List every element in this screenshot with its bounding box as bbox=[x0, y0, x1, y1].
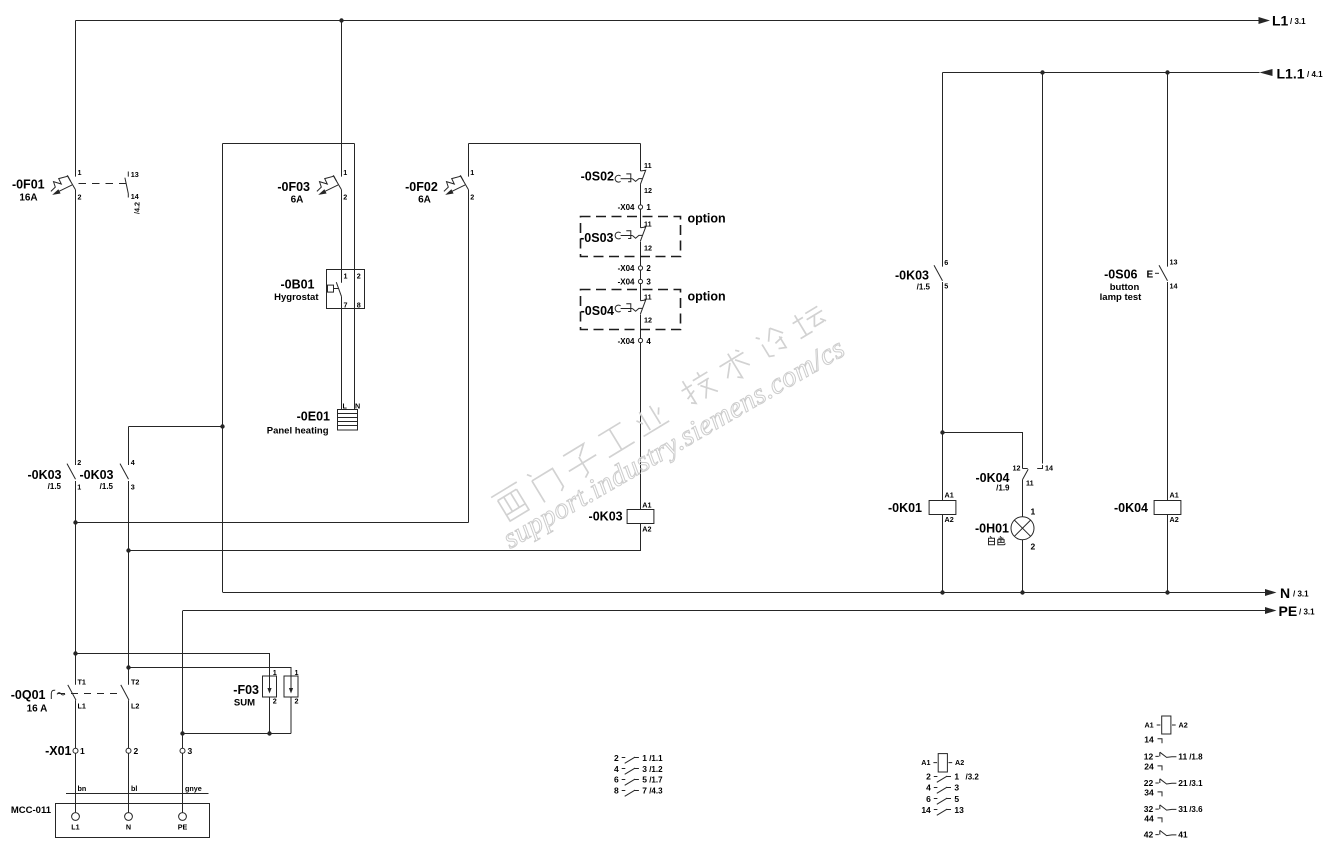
junction dot K03 A2 return bbox=[126, 548, 130, 552]
svg-text:12: 12 bbox=[1144, 752, 1154, 762]
heater -0E01 bbox=[338, 410, 358, 431]
wire lamp to N bbox=[1022, 540, 1024, 593]
contact mirror table -0K01 row 2-1 bbox=[926, 772, 979, 783]
svg-text:A2: A2 bbox=[1179, 721, 1188, 730]
svg-text:/ 3.1: / 3.1 bbox=[1299, 608, 1315, 617]
breaker -0F02 bbox=[444, 175, 469, 195]
junction dot L1.1 / lamp-14 branch bbox=[1040, 70, 1044, 74]
wire N rail bbox=[223, 592, 1265, 594]
svg-text:12: 12 bbox=[644, 244, 652, 253]
svg-text:-0F01: -0F01 bbox=[12, 178, 45, 192]
wire heater N line through B01 bbox=[354, 144, 356, 410]
terminal -X01:2 bbox=[126, 748, 131, 753]
svg-text:11: 11 bbox=[1026, 479, 1034, 488]
svg-text:5: 5 bbox=[954, 794, 959, 804]
svg-text:-0B01: -0B01 bbox=[280, 278, 314, 292]
svg-text:2: 2 bbox=[295, 697, 299, 706]
contact -0K03 4/3 bbox=[120, 464, 129, 480]
terminal -X01:1 bbox=[73, 748, 78, 753]
svg-text:-0H01: -0H01 bbox=[975, 522, 1009, 536]
aux contact -0F01 13/14 bbox=[125, 172, 128, 198]
svg-text:8: 8 bbox=[357, 301, 361, 310]
svg-text:-X01: -X01 bbox=[45, 744, 71, 758]
terminal -X04:1 bbox=[638, 205, 642, 209]
svg-text:L1: L1 bbox=[71, 823, 79, 832]
svg-text:/4.3: /4.3 bbox=[649, 786, 663, 795]
svg-text:L: L bbox=[343, 402, 348, 411]
svg-text:11: 11 bbox=[644, 220, 652, 229]
svg-text:-X04: -X04 bbox=[618, 337, 635, 346]
svg-text:/4.2: /4.2 bbox=[133, 202, 142, 214]
svg-text:21: 21 bbox=[1178, 778, 1188, 788]
wire pin 14 branch from L1.1 bbox=[1037, 73, 1042, 469]
svg-text:1: 1 bbox=[954, 772, 959, 782]
N rail arrow bbox=[1265, 589, 1277, 596]
wire SPD branch 1 horizontal bbox=[76, 654, 270, 677]
wire contact 11 to lamp bbox=[1022, 480, 1024, 517]
svg-text:16A: 16A bbox=[19, 193, 37, 204]
wire top horizontal right segment bbox=[469, 143, 641, 145]
wire -0F02 bottom return to L1 vertical bbox=[76, 522, 469, 524]
svg-text:7: 7 bbox=[344, 301, 348, 310]
sensor element -0B01 bbox=[328, 285, 334, 292]
breaker -0F03 bbox=[317, 175, 342, 195]
svg-text:/ 4.1: / 4.1 bbox=[1307, 70, 1323, 79]
contact mirror table -0K01 row 4-3 bbox=[926, 783, 959, 794]
surge arrester -F03 b bbox=[284, 676, 298, 697]
svg-text:-0S06: -0S06 bbox=[1104, 268, 1137, 282]
wire cable line above MCC bbox=[66, 793, 209, 795]
terminal -X04:2 bbox=[638, 266, 642, 270]
svg-text:option: option bbox=[688, 212, 726, 226]
svg-text:7: 7 bbox=[642, 785, 647, 795]
terminal -X01:3 bbox=[180, 748, 185, 753]
svg-text:A1: A1 bbox=[1170, 491, 1179, 500]
contact mirror table -0K01 row 6-5 bbox=[926, 794, 959, 805]
svg-text:A1: A1 bbox=[945, 491, 954, 500]
svg-text:6A: 6A bbox=[291, 195, 304, 206]
svg-text:1: 1 bbox=[470, 168, 474, 177]
svg-text:-0K01: -0K01 bbox=[888, 501, 922, 515]
position switch -0S03 11/12 bbox=[615, 227, 646, 241]
terminal MCC L1 bbox=[72, 813, 80, 821]
box -0B01 Hygrostat bbox=[327, 270, 365, 309]
box MCC-011 bbox=[56, 804, 210, 838]
svg-text:13: 13 bbox=[954, 805, 964, 815]
contact mirror table -0K03 row 8-7 bbox=[614, 785, 663, 796]
contact mirror table -0K01 coil bbox=[921, 754, 964, 772]
svg-text:-X04: -X04 bbox=[618, 278, 635, 287]
wire lamp branch horizontal bbox=[943, 433, 1023, 469]
terminal MCC N bbox=[125, 813, 133, 821]
contact mirror table -0K04 row 12-11 bbox=[1144, 752, 1203, 762]
svg-text:8: 8 bbox=[614, 785, 619, 795]
contact -0B01 1-7 blade bbox=[336, 282, 341, 296]
svg-text:L1.1: L1.1 bbox=[1277, 66, 1305, 82]
svg-text:/1.9: /1.9 bbox=[996, 484, 1010, 493]
svg-text:44: 44 bbox=[1144, 813, 1154, 823]
svg-text:5: 5 bbox=[944, 282, 948, 291]
junction dot SPD2 branch bbox=[126, 665, 130, 669]
svg-text:41: 41 bbox=[1178, 830, 1188, 840]
svg-text:-X04: -X04 bbox=[618, 264, 635, 273]
junction dot lamp/N bbox=[1020, 590, 1024, 594]
wire SPD bottoms to PE bbox=[183, 697, 292, 734]
svg-text:N: N bbox=[1280, 585, 1290, 601]
wire L1 top rail bbox=[76, 20, 1259, 22]
svg-text:/ 3.1: / 3.1 bbox=[1293, 590, 1309, 599]
coil -0K03 bbox=[627, 510, 654, 524]
svg-text:11: 11 bbox=[644, 293, 652, 302]
junction dot SPD1 bottom bbox=[267, 731, 271, 735]
svg-text:6A: 6A bbox=[418, 195, 431, 206]
svg-text:2: 2 bbox=[926, 772, 931, 782]
contact mirror table -0K03 row 2-1 bbox=[614, 753, 663, 763]
svg-text:-0S03: -0S03 bbox=[580, 231, 613, 245]
position switch -0S04 11/12 bbox=[615, 300, 646, 314]
wire -0K03 A2 to N branch bbox=[129, 524, 641, 551]
svg-text:/1.5: /1.5 bbox=[48, 482, 62, 491]
svg-text:A1: A1 bbox=[642, 500, 651, 509]
wire -0K01 branch vertical bbox=[942, 73, 944, 593]
svg-text:Hygrostat: Hygrostat bbox=[274, 292, 319, 303]
junction dot K01 branch / lamp branch bbox=[940, 430, 944, 434]
svg-text:4: 4 bbox=[926, 783, 931, 793]
junction dot L1 vertical / SPD branch bbox=[73, 651, 77, 655]
contact mirror table -0K03 row 6-5 bbox=[614, 775, 663, 786]
svg-text:16 A: 16 A bbox=[27, 704, 48, 715]
terminal -X04:4 bbox=[638, 338, 642, 342]
svg-text:14: 14 bbox=[1170, 282, 1178, 291]
svg-text:N: N bbox=[126, 823, 131, 832]
svg-text:SUM: SUM bbox=[234, 698, 255, 709]
svg-text:11: 11 bbox=[1178, 752, 1187, 762]
switch -0Q01 pole T1/L1 bbox=[68, 685, 76, 700]
svg-text:14: 14 bbox=[1144, 734, 1154, 744]
contact mirror table -0K04 hook 24 bbox=[1144, 761, 1162, 771]
contact -0K03 6/5 bbox=[934, 265, 943, 281]
wire horizontal N-branch top bbox=[129, 426, 223, 428]
svg-text:2: 2 bbox=[273, 697, 277, 706]
contact -0K04 12/11 changeover bbox=[1023, 469, 1029, 480]
svg-text:5: 5 bbox=[642, 775, 647, 785]
svg-text:2: 2 bbox=[646, 264, 651, 273]
wire PE rail bbox=[183, 610, 1265, 612]
svg-text:T1: T1 bbox=[78, 678, 86, 687]
svg-text:/1.1: /1.1 bbox=[649, 754, 663, 763]
junction dot K01/N bbox=[940, 590, 944, 594]
wire -0F02 branch vertical bbox=[468, 144, 470, 523]
svg-text:bl: bl bbox=[131, 784, 137, 793]
svg-text:6: 6 bbox=[944, 258, 948, 267]
actuator -0Q01 handle bbox=[51, 690, 65, 699]
svg-text:PE: PE bbox=[178, 823, 188, 832]
svg-text:11: 11 bbox=[644, 161, 652, 170]
svg-text:/1.5: /1.5 bbox=[917, 283, 931, 292]
junction on L1 rail at -0F03 branch bbox=[339, 18, 343, 22]
svg-text:1: 1 bbox=[80, 746, 85, 756]
svg-text:1: 1 bbox=[1031, 507, 1036, 517]
svg-text:4: 4 bbox=[131, 458, 135, 467]
svg-text:3: 3 bbox=[131, 483, 135, 492]
svg-text:3: 3 bbox=[188, 746, 193, 756]
wire top horizontal left segment (heater N return) bbox=[223, 143, 355, 145]
svg-text:/1.7: /1.7 bbox=[649, 776, 663, 785]
svg-text:gnye: gnye bbox=[185, 784, 202, 793]
svg-text:-0K03: -0K03 bbox=[895, 269, 929, 283]
svg-text:1: 1 bbox=[642, 753, 647, 763]
wire SPD branch 2 horizontal bbox=[129, 668, 292, 677]
wire -0S02 chain vertical bbox=[640, 144, 642, 510]
svg-text:24: 24 bbox=[1144, 761, 1154, 771]
svg-text:-F03: -F03 bbox=[233, 683, 259, 697]
wire left main vertical L1 bbox=[75, 21, 77, 813]
breaker -0F01 bbox=[51, 175, 76, 195]
svg-text:2: 2 bbox=[77, 458, 81, 467]
lamp color label 白色 bbox=[989, 536, 1006, 545]
option box 1 bbox=[581, 217, 681, 257]
svg-text:14: 14 bbox=[1045, 464, 1053, 473]
svg-text:A2: A2 bbox=[1170, 515, 1179, 524]
svg-text:31: 31 bbox=[1178, 804, 1188, 814]
coil -0K04 bbox=[1154, 501, 1181, 515]
position switch -0S02 11/12 bbox=[615, 170, 646, 184]
svg-text:-0K03: -0K03 bbox=[589, 510, 623, 524]
svg-text:PE: PE bbox=[1279, 603, 1298, 619]
svg-text:option: option bbox=[688, 290, 726, 304]
svg-text:/3.1: /3.1 bbox=[1189, 779, 1203, 788]
wire -0F03 branch vertical bbox=[341, 21, 343, 283]
contact -0K03 2/1 bbox=[67, 464, 76, 480]
contact mirror table -0K03 row 4-3 bbox=[614, 764, 663, 774]
svg-text:2: 2 bbox=[357, 272, 361, 281]
svg-text:lamp test: lamp test bbox=[1100, 292, 1143, 303]
svg-text:12: 12 bbox=[644, 315, 652, 324]
svg-text:A2: A2 bbox=[945, 515, 954, 524]
svg-text:-0E01: -0E01 bbox=[297, 410, 330, 424]
svg-text:-0Q01: -0Q01 bbox=[11, 688, 46, 702]
svg-text:/1.2: /1.2 bbox=[649, 765, 663, 774]
svg-text:Panel heating: Panel heating bbox=[267, 426, 329, 437]
svg-text:3: 3 bbox=[646, 278, 651, 287]
junction dot K04/N bbox=[1165, 590, 1169, 594]
svg-text:12: 12 bbox=[1013, 464, 1021, 473]
L1 rail arrow bbox=[1259, 17, 1271, 24]
svg-text:4: 4 bbox=[646, 337, 651, 346]
svg-text:2: 2 bbox=[343, 193, 347, 202]
svg-text:/3.2: /3.2 bbox=[966, 773, 980, 782]
svg-text:13: 13 bbox=[1170, 258, 1178, 267]
svg-text:A2: A2 bbox=[955, 758, 964, 767]
svg-text:1: 1 bbox=[295, 668, 299, 677]
svg-text:/1.5: /1.5 bbox=[100, 482, 114, 491]
contact mirror table -0K04 hook 34 bbox=[1144, 787, 1162, 797]
svg-text:3: 3 bbox=[954, 783, 959, 793]
svg-text:/1.8: /1.8 bbox=[1189, 753, 1203, 762]
svg-text:1: 1 bbox=[273, 668, 277, 677]
svg-text:14: 14 bbox=[131, 192, 139, 201]
junction dot L1 vertical / F02 return bbox=[73, 520, 77, 524]
svg-text:L1: L1 bbox=[78, 702, 86, 711]
junction dot PE / SPD bottom bbox=[180, 731, 184, 735]
svg-text:L1: L1 bbox=[1272, 13, 1289, 29]
svg-text:T2: T2 bbox=[131, 678, 139, 687]
wire second vertical (N side) bbox=[128, 427, 130, 813]
wire L1.1 rail bbox=[943, 72, 1260, 74]
wire N return vertical bbox=[222, 144, 224, 593]
svg-text:2: 2 bbox=[614, 753, 619, 763]
junction dot N return vertical bbox=[220, 424, 224, 428]
option box 2 bbox=[581, 290, 681, 330]
svg-text:-0F03: -0F03 bbox=[277, 180, 310, 194]
svg-text:1: 1 bbox=[646, 203, 651, 212]
svg-text:6: 6 bbox=[614, 775, 619, 785]
contact mirror table -0K04 hook 44 bbox=[1144, 813, 1162, 823]
svg-text:4: 4 bbox=[614, 764, 619, 774]
svg-text:1: 1 bbox=[77, 483, 81, 492]
coil -0K01 bbox=[929, 501, 956, 515]
svg-text:2: 2 bbox=[134, 746, 139, 756]
svg-text:-0F02: -0F02 bbox=[405, 180, 438, 194]
contact mirror table -0K04 row 32-31 bbox=[1144, 804, 1203, 814]
svg-text:1: 1 bbox=[344, 272, 348, 281]
svg-text:/3.6: /3.6 bbox=[1189, 805, 1203, 814]
svg-text:-0K03: -0K03 bbox=[79, 468, 113, 482]
watermark Siemens forum bbox=[491, 299, 833, 525]
svg-text:E: E bbox=[1147, 270, 1154, 281]
svg-text:42: 42 bbox=[1144, 830, 1154, 840]
svg-text:3: 3 bbox=[642, 764, 647, 774]
contact mirror table -0K04 hook 14 bbox=[1144, 734, 1162, 744]
wire PE vertical bbox=[182, 611, 184, 813]
svg-text:L2: L2 bbox=[131, 702, 139, 711]
contact mirror table -0K04 coil bbox=[1144, 716, 1187, 734]
svg-text:6: 6 bbox=[926, 794, 931, 804]
svg-text:2: 2 bbox=[78, 193, 82, 202]
svg-text:13: 13 bbox=[131, 170, 139, 179]
svg-text:-X04: -X04 bbox=[618, 203, 635, 212]
svg-text:-0K03: -0K03 bbox=[27, 468, 61, 482]
svg-text:A1: A1 bbox=[921, 758, 930, 767]
svg-text:2: 2 bbox=[470, 193, 474, 202]
svg-text:1: 1 bbox=[343, 168, 347, 177]
svg-text:N: N bbox=[355, 402, 360, 411]
svg-text:A1: A1 bbox=[1144, 721, 1153, 730]
pushbutton -0S06 13/14 bbox=[1159, 265, 1168, 281]
wire -0S06 branch vertical bbox=[1167, 73, 1169, 593]
junction dot L1.1 / -0S06 branch bbox=[1165, 70, 1169, 74]
wire dashed link -0F01 aux bbox=[79, 183, 127, 185]
wire -0B01 pin7 to heater bbox=[341, 297, 343, 410]
svg-text:2: 2 bbox=[1031, 542, 1036, 552]
svg-text:1: 1 bbox=[78, 168, 82, 177]
contact mirror table -0K01 row 14-13 bbox=[921, 805, 964, 815]
svg-text:-0K04: -0K04 bbox=[1114, 501, 1148, 515]
svg-text:-0S02: -0S02 bbox=[581, 170, 614, 184]
svg-text:14: 14 bbox=[921, 805, 931, 815]
svg-text:-0S04: -0S04 bbox=[581, 304, 614, 318]
contact mirror table -0K04 row 22-21 bbox=[1144, 778, 1203, 788]
surge arrester -F03 a bbox=[263, 676, 277, 697]
PE rail arrow bbox=[1265, 607, 1277, 614]
svg-text:A2: A2 bbox=[642, 525, 651, 534]
svg-text:/ 3.1: / 3.1 bbox=[1290, 17, 1306, 26]
lamp -0H01 bbox=[1011, 517, 1034, 540]
svg-text:MCC-011: MCC-011 bbox=[11, 805, 52, 816]
terminal -X04:3 bbox=[638, 279, 642, 283]
switch -0Q01 pole T2/L2 bbox=[121, 685, 129, 700]
terminal MCC PE bbox=[179, 813, 187, 821]
L1.1 rail arrow bbox=[1260, 69, 1273, 76]
svg-text:34: 34 bbox=[1144, 787, 1154, 797]
wire -0Q01 linkage dashed bbox=[58, 693, 122, 695]
svg-text:bn: bn bbox=[78, 784, 87, 793]
svg-text:12: 12 bbox=[644, 186, 652, 195]
contact mirror table -0K04 row 42-41 bbox=[1144, 830, 1188, 840]
